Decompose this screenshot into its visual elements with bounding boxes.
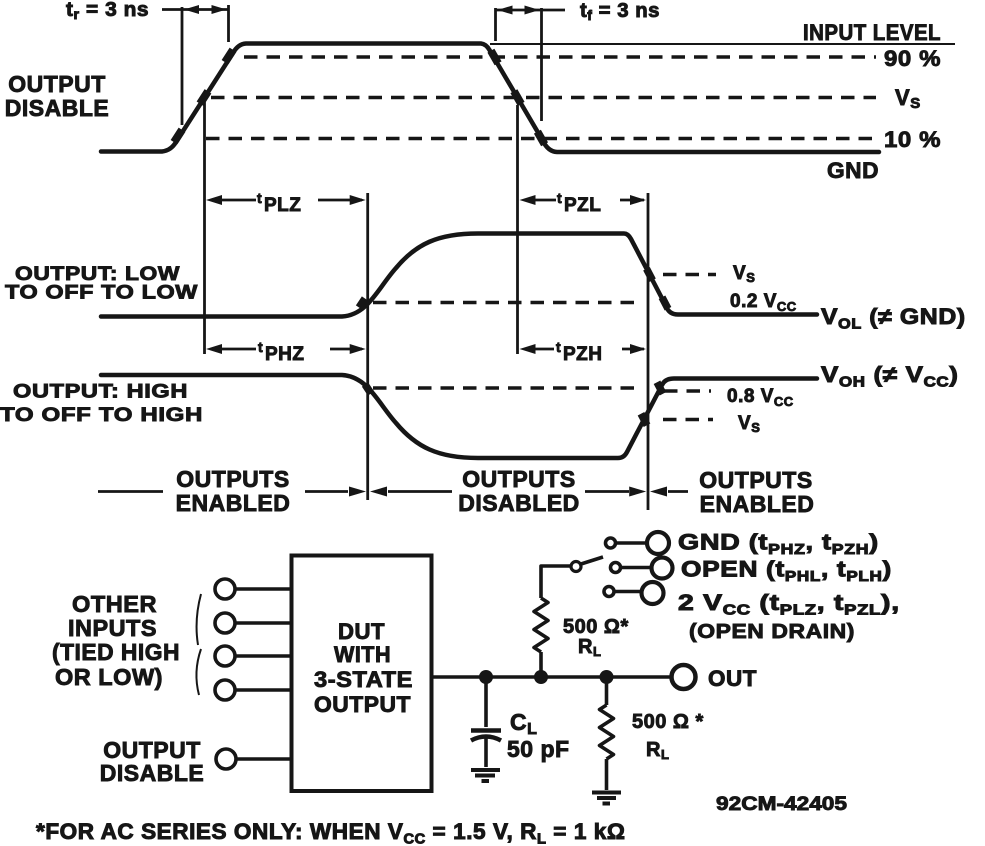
svg-text:OUTPUT: HIGH: OUTPUT: HIGH bbox=[13, 382, 188, 403]
svg-text:TO OFF TO HIGH: TO OFF TO HIGH bbox=[0, 405, 203, 426]
wire input 4 bbox=[235, 688, 291, 692]
svg-text:50 pF: 50 pF bbox=[507, 736, 570, 762]
label VS low bbox=[733, 263, 755, 285]
switch S1 blade bbox=[581, 557, 603, 564]
switch throw OPEN contact bbox=[611, 563, 652, 573]
wire vertical right output boundary bbox=[647, 193, 650, 510]
label 0.8 VCC bbox=[727, 386, 794, 409]
svg-text:OUTPUTS: OUTPUTS bbox=[699, 467, 812, 493]
label OUTPUT: LOW TO OFF TO LOW bbox=[5, 264, 198, 304]
svg-text:DUT: DUT bbox=[338, 619, 385, 644]
wire output high-to-off-to-high bbox=[101, 375, 817, 458]
svg-text:OTHER: OTHER bbox=[72, 591, 157, 617]
node 10% dashed level bbox=[206, 137, 876, 141]
bracket other inputs bbox=[196, 594, 201, 695]
resistor RL1 (upper 500 ohm) bbox=[534, 566, 570, 677]
svg-text:WITH: WITH bbox=[334, 642, 391, 667]
tr measure line bbox=[162, 5, 229, 125]
svg-text:OUTPUTS: OUTPUTS bbox=[176, 466, 289, 492]
label OUTPUTS ENABLED right bbox=[699, 467, 814, 517]
svg-text:500 Ω*: 500 Ω* bbox=[563, 616, 629, 638]
svg-text:DISABLE: DISABLE bbox=[5, 95, 109, 121]
node 0.2VCC dashed level bbox=[373, 301, 640, 305]
label 10 % bbox=[884, 127, 941, 152]
wire DUT output bbox=[432, 675, 672, 679]
capacitor CL bbox=[471, 677, 501, 767]
svg-text:(TIED HIGH: (TIED HIGH bbox=[52, 639, 180, 665]
tf measure line bbox=[496, 6, 566, 122]
label tr = 3 ns bbox=[66, 0, 149, 22]
svg-text:OUTPUT: OUTPUT bbox=[314, 692, 411, 717]
svg-text:t: t bbox=[257, 190, 262, 206]
wire vertical left output boundary bbox=[366, 193, 369, 500]
svg-text:3-STATE: 3-STATE bbox=[314, 667, 413, 692]
svg-text:TO OFF TO LOW: TO OFF TO LOW bbox=[5, 283, 198, 304]
ground RL2 bbox=[592, 793, 621, 804]
switch throw 2VCC contact bbox=[604, 587, 641, 597]
node fall edge arrow marks bbox=[491, 51, 545, 145]
switch S1 pole bbox=[571, 562, 581, 572]
label 2 VCC (tPLZ, tPZL), bbox=[678, 591, 900, 618]
terminal input 4 bbox=[215, 680, 235, 700]
label VOH bbox=[821, 363, 959, 391]
svg-text:OR LOW): OR LOW) bbox=[55, 664, 163, 690]
svg-text:t: t bbox=[557, 190, 562, 206]
svg-text:ENABLED: ENABLED bbox=[700, 491, 815, 517]
svg-text:INPUTS: INPUTS bbox=[68, 615, 157, 641]
switch throw GND contact bbox=[606, 538, 648, 548]
svg-text:DISABLE: DISABLE bbox=[100, 760, 204, 786]
label 90 % bbox=[884, 46, 941, 71]
label GND (tPHZ, tPZH) bbox=[678, 530, 879, 558]
svg-text:PZH: PZH bbox=[563, 344, 603, 365]
node high-output edge blobs bbox=[365, 382, 663, 425]
svg-text:t: t bbox=[556, 339, 561, 355]
wire input 1 bbox=[235, 587, 291, 591]
label INPUT LEVEL bbox=[803, 20, 941, 45]
node VS dashed level high bbox=[663, 418, 713, 422]
label VOL bbox=[821, 305, 966, 332]
label OPEN (tPHL, tPLH) bbox=[681, 557, 892, 584]
label GND bbox=[827, 158, 879, 183]
svg-text:GND: GND bbox=[827, 158, 879, 183]
node junction CL bbox=[479, 670, 493, 684]
label (OPEN DRAIN) bbox=[689, 621, 855, 643]
node 0.8VCC dashed level bbox=[373, 386, 643, 390]
svg-text:500 Ω *: 500 Ω * bbox=[632, 711, 704, 733]
terminal input 3 bbox=[215, 646, 235, 666]
label CL 50 pF bbox=[507, 709, 570, 762]
terminal input 2 bbox=[215, 613, 235, 633]
node low-output edge blobs bbox=[359, 269, 668, 309]
wire output low-to-off-to-low bbox=[101, 234, 817, 317]
node 0.8VCC dashes right bbox=[664, 389, 711, 393]
label footnote bbox=[36, 819, 626, 846]
node 90% dashed level bbox=[244, 55, 876, 59]
label VS bbox=[895, 85, 921, 112]
wire output disable bbox=[236, 757, 291, 761]
svg-text:INPUT LEVEL: INPUT LEVEL bbox=[803, 20, 941, 45]
label 92CM-42405 bbox=[716, 794, 848, 815]
label OUTPUT DISABLE (circuit) bbox=[100, 737, 204, 786]
label 500 ohm RL1 bbox=[563, 616, 629, 659]
label OUTPUT DISABLE bbox=[5, 71, 109, 121]
svg-text:10 %: 10 % bbox=[884, 127, 941, 152]
label tf = 3 ns bbox=[580, 0, 660, 23]
wire input-level reference line bbox=[490, 43, 955, 45]
DUT U1 box bbox=[292, 556, 432, 792]
ground CL bbox=[471, 770, 500, 781]
node junction RL2 bbox=[600, 670, 614, 684]
wire vertical at input fall VS crossing bbox=[516, 105, 519, 354]
terminal output disable bbox=[216, 749, 236, 769]
svg-text:OUTPUT: OUTPUT bbox=[8, 71, 106, 97]
svg-text:DISABLED: DISABLED bbox=[458, 490, 580, 516]
label VS high bbox=[738, 413, 760, 435]
svg-text:OUTPUTS: OUTPUTS bbox=[462, 466, 575, 492]
wire vertical at input rise VS crossing bbox=[203, 100, 206, 354]
terminal 2VCC bbox=[642, 582, 664, 604]
node junction RL1 bbox=[534, 670, 548, 684]
label OUT bbox=[708, 666, 757, 691]
label OUTPUT: HIGH TO OFF TO HIGH bbox=[0, 382, 203, 427]
node VS dashed level bbox=[211, 96, 876, 100]
svg-text:t: t bbox=[258, 339, 263, 355]
terminal OUT bbox=[672, 665, 696, 689]
wire input 3 bbox=[235, 654, 291, 658]
label DUT WITH 3-STATE OUTPUT bbox=[314, 619, 413, 717]
svg-text:92CM-42405: 92CM-42405 bbox=[716, 794, 848, 815]
terminal input 1 bbox=[215, 579, 235, 599]
svg-text:PZL: PZL bbox=[564, 195, 601, 216]
wire input waveform OUTPUT DISABLE bbox=[101, 44, 879, 153]
svg-text:ENABLED: ENABLED bbox=[176, 490, 291, 516]
label OTHER INPUTS (TIED HIGH OR LOW) bbox=[52, 591, 180, 690]
svg-text:90 %: 90 % bbox=[884, 46, 941, 71]
svg-text:PHZ: PHZ bbox=[265, 344, 305, 365]
label OUTPUTS DISABLED bbox=[458, 466, 580, 516]
svg-text:PLZ: PLZ bbox=[264, 195, 301, 216]
resistor RL2 (lower 500 ohm) bbox=[600, 677, 614, 790]
svg-text:(OPEN DRAIN): (OPEN DRAIN) bbox=[689, 621, 855, 643]
svg-text:tf = 3 ns: tf = 3 ns bbox=[580, 0, 660, 23]
terminal GND bbox=[647, 532, 669, 554]
label OUTPUTS ENABLED left bbox=[176, 466, 291, 516]
svg-text:OUT: OUT bbox=[708, 666, 757, 691]
node VS dashed level low bbox=[663, 273, 716, 277]
terminal OPEN bbox=[652, 558, 673, 579]
label 500 ohm RL2 bbox=[632, 711, 704, 762]
wire input 2 bbox=[235, 621, 291, 625]
node rise edge arrow marks bbox=[174, 50, 233, 142]
label 0.2 VCC bbox=[730, 291, 797, 314]
